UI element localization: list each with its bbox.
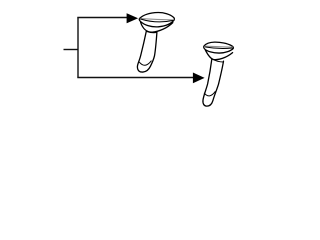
leader bracket vertical wire [77, 18, 79, 78]
top leader wire [77, 17, 127, 19]
screw 1 collar under head [146, 31, 157, 32]
screw 2 head skirt [205, 50, 232, 59]
screw 1 (top screw) [137, 12, 174, 72]
leader tick (left stub wire) [64, 49, 79, 51]
screw 2 head slot highlight [205, 46, 232, 47]
screw 1 head skirt [141, 22, 173, 32]
screw 2 collar under head [212, 59, 224, 62]
screw 2 tip chamfer [204, 92, 215, 96]
bottom arrowhead [193, 73, 205, 84]
screw 1 head outer rim [139, 12, 174, 26]
screw 1 head inner rim arc [141, 19, 174, 22]
bottom leader wire [77, 77, 195, 79]
screw 2 (bottom screw) [203, 42, 234, 106]
top arrowhead [127, 13, 139, 23]
screw 1 head slot highlight [140, 19, 173, 20]
screw 1 tip chamfer [139, 61, 151, 65]
screw 2 head outer rim [204, 42, 234, 53]
screw 2 shaft [203, 59, 224, 107]
screw 1 shaft [137, 31, 157, 72]
screw 2 head inner rim arc [206, 47, 233, 48]
